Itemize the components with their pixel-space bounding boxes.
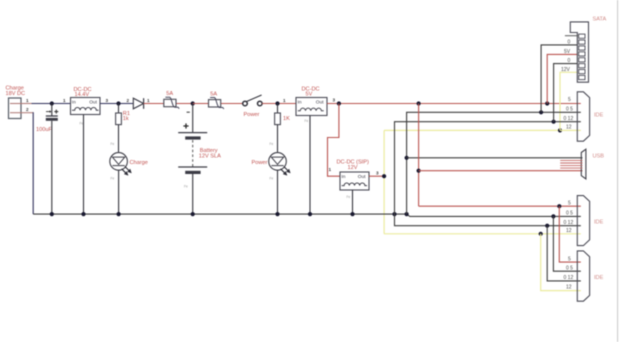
svg-text:Fe: Fe bbox=[347, 195, 351, 199]
svg-text:5A: 5A bbox=[210, 91, 217, 97]
svg-text:5A: 5A bbox=[166, 91, 173, 97]
node ground SATA-0a junction dot bbox=[539, 110, 543, 114]
node U3 out dot bbox=[382, 174, 386, 178]
node U2 out junction dot bbox=[337, 101, 341, 105]
svg-text:SATA: SATA bbox=[593, 17, 607, 23]
connector J1 Charge 18V DC bbox=[6, 86, 26, 119]
node battery junction dot bbox=[191, 101, 195, 105]
ground junction dot (cap) bbox=[50, 212, 54, 216]
svg-text:Fe: Fe bbox=[184, 185, 188, 189]
svg-text:2: 2 bbox=[26, 107, 29, 112]
yellow 12V wire vertical bbox=[383, 130, 385, 233]
ground junction dot (riser 1) bbox=[392, 212, 396, 216]
ground junction dot (LED2) bbox=[275, 212, 279, 216]
node ground SATA-0b junction dot bbox=[552, 120, 556, 124]
LED D2 Charge bbox=[110, 153, 132, 176]
svg-text:In: In bbox=[341, 174, 345, 180]
svg-text:0: 0 bbox=[568, 58, 571, 64]
USB pin stubs bbox=[560, 160, 582, 168]
IDE connector 2 body bbox=[577, 196, 589, 246]
svg-text:IDE: IDE bbox=[594, 113, 604, 119]
LED D3 Power bbox=[269, 153, 291, 176]
node red bus junction dot (riser) bbox=[417, 101, 421, 105]
svg-text:Fe: Fe bbox=[305, 119, 309, 123]
wire R2 to LED2 bbox=[277, 125, 279, 153]
svg-text:0 12: 0 12 bbox=[564, 220, 574, 226]
diode D1 bbox=[133, 98, 143, 109]
dc-dc converter U3 (SIP) 12V bbox=[337, 160, 370, 191]
ground wire down to IDE3 0-12 bbox=[547, 226, 581, 281]
svg-text:1k: 1k bbox=[123, 116, 129, 122]
resistor R2 1K bbox=[275, 113, 281, 125]
svg-text:18V DC: 18V DC bbox=[6, 91, 26, 97]
svg-text:Out: Out bbox=[89, 99, 97, 105]
svg-text:Out: Out bbox=[358, 174, 366, 180]
node yellow SATA junction dot bbox=[558, 128, 562, 132]
SATA connector body bbox=[570, 22, 588, 82]
svg-text:Out: Out bbox=[316, 99, 324, 105]
svg-text:5V: 5V bbox=[306, 92, 313, 98]
ground wire up to SATA 0a bbox=[541, 45, 578, 112]
svg-text:1: 1 bbox=[26, 98, 29, 103]
wire R1 to LED bbox=[118, 125, 120, 153]
svg-text:12: 12 bbox=[566, 125, 572, 131]
svg-text:1: 1 bbox=[329, 167, 332, 172]
svg-text:12: 12 bbox=[566, 285, 572, 291]
svg-text:3: 3 bbox=[376, 171, 379, 176]
wire U1 ground pin bbox=[83, 115, 85, 215]
ground wire down to IDE3 0-5 bbox=[553, 216, 580, 271]
svg-text:12V SLA: 12V SLA bbox=[199, 153, 221, 159]
yellow 12V wire to SATA row bbox=[384, 129, 560, 131]
wire battery to ground bus bbox=[192, 174, 194, 214]
capacitor C1 plates bbox=[46, 116, 58, 121]
svg-text:0 12: 0 12 bbox=[564, 116, 574, 122]
svg-text:12V: 12V bbox=[561, 67, 571, 73]
wire U2 ground pin bbox=[309, 116, 311, 215]
node red IDE2 junction dot bbox=[557, 204, 561, 208]
yellow 12V wire down to IDE3 bbox=[541, 234, 581, 291]
svg-text:0 5: 0 5 bbox=[566, 211, 573, 217]
yellow 12V stub IDE1 bbox=[560, 129, 581, 131]
node ground IDE2 0-12 junction dot bbox=[545, 224, 549, 228]
svg-text:USB: USB bbox=[593, 154, 605, 160]
capacitor C1 100uF polarity marks bbox=[46, 110, 58, 114]
node B junction dot bbox=[116, 101, 120, 105]
wire switch to U2 (red) bbox=[262, 103, 296, 105]
wire U1 out bbox=[100, 103, 133, 105]
svg-text:Charge: Charge bbox=[130, 160, 148, 166]
wire node B to resistor R1 bbox=[118, 104, 120, 114]
ground junction dot (U3) bbox=[350, 212, 354, 216]
ground riser wire x394 to IDE1 0-12 bbox=[395, 122, 581, 214]
ground junction dot (U2) bbox=[308, 212, 312, 216]
USB connector body bbox=[581, 149, 586, 179]
svg-text:Fe: Fe bbox=[111, 177, 115, 181]
yellow 12V wire lower run bbox=[384, 233, 581, 235]
svg-text:IDE: IDE bbox=[594, 220, 604, 226]
svg-text:2: 2 bbox=[127, 98, 130, 103]
switch S1 Power bbox=[243, 95, 262, 118]
battery B1 12V SLA plates bbox=[178, 133, 207, 174]
svg-text:5: 5 bbox=[568, 256, 571, 262]
SATA pins bbox=[579, 34, 585, 80]
svg-text:1K: 1K bbox=[283, 116, 290, 122]
yellow 12V wire up to SATA bbox=[560, 72, 578, 130]
ground wire to USB bbox=[407, 157, 583, 159]
ground riser wire x406 to IDE1 0-5 bbox=[407, 112, 581, 214]
dc-dc converter U1 14.4V bbox=[71, 87, 101, 115]
wire node C to resistor R2 bbox=[277, 104, 279, 114]
wire U2 out to U3 in (red jog) bbox=[328, 104, 341, 177]
svg-text:0 5: 0 5 bbox=[566, 265, 573, 271]
red 5V wire to IDE2 bbox=[419, 205, 581, 207]
svg-text:5: 5 bbox=[568, 97, 571, 103]
node C junction dot bbox=[275, 101, 279, 105]
svg-text:14.4V: 14.4V bbox=[75, 92, 90, 98]
wire U3 ground pin bbox=[352, 190, 354, 214]
red 5V riser wire down bbox=[418, 104, 420, 207]
wire J1 pin1 bbox=[21, 103, 32, 105]
svg-text:Fe: Fe bbox=[111, 142, 115, 146]
svg-text:100uF: 100uF bbox=[36, 127, 52, 133]
IDE connector 1 body bbox=[577, 92, 589, 141]
ground junction dot (LED1) bbox=[117, 212, 121, 216]
ground junction dot (U1) bbox=[81, 212, 85, 216]
svg-text:IDE: IDE bbox=[594, 275, 604, 281]
svg-text:12: 12 bbox=[566, 228, 572, 234]
wire U3 out bbox=[369, 175, 384, 177]
svg-text:Power: Power bbox=[244, 112, 260, 118]
SATA NC stub bbox=[565, 35, 578, 37]
node ground USB junction dot bbox=[405, 156, 409, 160]
svg-text:In: In bbox=[72, 99, 76, 105]
node ground IDE2 0-5 junction dot bbox=[551, 214, 555, 218]
battery plus mark bbox=[183, 123, 188, 128]
svg-text:0 12: 0 12 bbox=[564, 275, 574, 281]
node red USB junction dot bbox=[417, 169, 421, 173]
right page edge line bbox=[617, 0, 619, 342]
svg-text:0: 0 bbox=[568, 39, 571, 45]
svg-text:3: 3 bbox=[333, 98, 336, 103]
resistor R1 bbox=[116, 113, 122, 125]
svg-text:0 5: 0 5 bbox=[566, 107, 573, 113]
ground wire up to SATA 0b bbox=[554, 64, 579, 122]
ground junction dot (riser 2) bbox=[405, 212, 409, 216]
ground junction dot (battery) bbox=[191, 212, 195, 216]
svg-text:Fe: Fe bbox=[270, 177, 274, 181]
svg-text:5V: 5V bbox=[564, 49, 571, 55]
svg-text:Power: Power bbox=[252, 160, 268, 166]
node yellow IDE2 junction dot bbox=[539, 232, 543, 236]
svg-text:1: 1 bbox=[283, 98, 286, 103]
fuse F2 5A bbox=[209, 91, 224, 109]
svg-text:5: 5 bbox=[568, 200, 571, 206]
red 5V wire up to SATA bbox=[547, 54, 578, 103]
IDE connector 3 body bbox=[577, 251, 589, 301]
svg-text:In: In bbox=[298, 99, 302, 105]
svg-text:Fe: Fe bbox=[270, 142, 274, 146]
battery minus mark bbox=[187, 111, 190, 113]
ground branch wire to IDE2 0-12 bbox=[395, 214, 581, 226]
svg-text:1: 1 bbox=[63, 98, 66, 103]
ground bus wire bbox=[33, 214, 581, 216]
red 5V wire down to IDE3 bbox=[559, 206, 581, 262]
wire LED1 to ground bus bbox=[118, 170, 120, 214]
svg-text:12V: 12V bbox=[348, 165, 358, 171]
svg-text:3: 3 bbox=[106, 98, 109, 103]
wire diode to fuse F1 (red) bbox=[144, 103, 209, 105]
red 5V bus wire bbox=[327, 103, 581, 105]
wire LED2 to ground bus bbox=[277, 170, 279, 214]
wire to capacitor bbox=[51, 104, 53, 116]
wire capacitor to ground bus bbox=[51, 121, 53, 214]
node red SATA junction dot bbox=[545, 101, 549, 105]
wire battery node to fuse F2 (red) bbox=[193, 103, 243, 105]
dc-dc converter U2 5V bbox=[296, 86, 327, 115]
wire to battery bbox=[192, 104, 194, 133]
svg-text:1: 1 bbox=[147, 98, 150, 103]
red 5V wire to USB bbox=[419, 170, 583, 172]
node A junction dot bbox=[50, 101, 54, 105]
svg-text:Fe: Fe bbox=[80, 122, 84, 126]
fuse F1 5A bbox=[164, 91, 179, 109]
wire J1 pin2 bbox=[21, 112, 33, 114]
